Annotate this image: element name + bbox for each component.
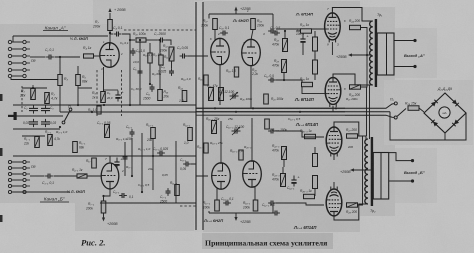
resistor R23-1 470к xyxy=(281,174,286,187)
diode Д2 xyxy=(452,99,459,106)
wire rail drop right xyxy=(272,14,274,30)
wire rail drop left xyxy=(208,14,210,19)
wire grid res B top xyxy=(314,147,316,154)
wire top rail A input xyxy=(13,35,108,37)
wire C1-1 to grid xyxy=(54,175,102,177)
wire +250B to tap xyxy=(354,169,372,171)
potentiometer R3 volume xyxy=(58,75,62,86)
underline Канал А xyxy=(43,30,68,32)
wire Л3-1 plate to Тр2 xyxy=(334,204,367,220)
junction bus 2 xyxy=(235,111,237,113)
resistor grid A bottom xyxy=(313,60,318,74)
resistor R2-1 4,7к xyxy=(48,135,53,146)
capacitor C5-1 10,0 xyxy=(114,157,123,169)
wire vert x176 B xyxy=(175,141,177,203)
junction tone 1 xyxy=(32,87,34,89)
wire input B row 1 xyxy=(12,161,23,163)
wire vert x152 B xyxy=(152,139,154,190)
resistor R26-1 1к xyxy=(304,194,315,198)
wire input B row 3 xyxy=(12,173,23,175)
wire R23-1 top xyxy=(282,167,284,174)
resistor R18 1,0 xyxy=(234,67,238,77)
resistor R10-1 20к xyxy=(151,128,156,139)
wire inter-transformer link 1 xyxy=(366,87,368,136)
wire vert x142 B xyxy=(141,133,143,192)
resistor R18-1 1,0 xyxy=(239,150,243,160)
wire Л1b cathode up xyxy=(109,156,111,164)
capacitor C13 0,5 xyxy=(272,31,280,36)
left-edge smudge 3 xyxy=(0,215,3,222)
junction bus 1 xyxy=(214,107,216,109)
wire input B row 2 xyxy=(12,167,23,169)
resistor R19-1 100к xyxy=(253,200,258,211)
pentode Л4-1 6П14П xyxy=(326,125,342,157)
terminal output B- xyxy=(411,179,414,182)
capacitor C7-1 2500 xyxy=(166,188,171,196)
junction A m6 xyxy=(109,32,111,34)
junction A m3 xyxy=(159,39,161,41)
wire vert x160 xyxy=(159,40,161,90)
wire tone top xyxy=(22,87,47,89)
resistor R15-1 1к xyxy=(204,143,208,153)
resistor R6-1 1к xyxy=(92,158,97,168)
capacitor C5a 10,0 xyxy=(138,68,143,76)
caption highlight box xyxy=(202,233,333,249)
diode Д4 xyxy=(452,119,459,126)
wire Л4-1 plate to Тр2 xyxy=(334,122,366,140)
resistor R2 4,7к xyxy=(45,93,50,104)
wire R7 to +200 xyxy=(109,13,111,20)
wire speaker line 2 xyxy=(345,111,390,113)
wire Л4 plate to Тр1 xyxy=(333,74,372,85)
resistor R4 1к xyxy=(84,54,94,58)
wire dashed shield right xyxy=(121,70,123,116)
wire bus B y203 xyxy=(100,202,196,204)
wire cathode drop xyxy=(103,67,105,92)
wire grid res B bot xyxy=(314,189,316,197)
junction bar input A xyxy=(14,112,17,120)
wire Л4-1 cathode xyxy=(333,154,335,160)
resistor R21-1 100к xyxy=(265,119,270,129)
triode Л2-1b xyxy=(243,161,262,187)
input B terminal L2 xyxy=(8,166,11,169)
resistor R1-1 22к xyxy=(35,137,40,148)
wire input A row 3 xyxy=(12,55,23,57)
wire input B row 6 xyxy=(12,191,23,193)
scan patch middle main block xyxy=(203,1,360,232)
capacitor C1 0,1 xyxy=(46,55,54,60)
wire to grid top tube xyxy=(276,28,325,30)
resistor R13 20к xyxy=(158,90,163,101)
input A terminal L1 xyxy=(8,40,11,43)
wire input B row 4 xyxy=(12,179,23,181)
resistor R15 1к xyxy=(204,75,208,85)
wire splitter vert 2 xyxy=(250,65,252,108)
wire input A row 2 xyxy=(12,48,23,50)
junction A m4 xyxy=(129,104,131,106)
wire signal B to splitter xyxy=(191,164,208,176)
input A terminal L5 xyxy=(8,68,11,71)
capacitor C12-1b 0,5 xyxy=(272,211,280,216)
junction A m5 xyxy=(149,83,151,85)
resistor R24-1 200 xyxy=(347,134,358,138)
wire C1 to volume xyxy=(55,56,81,58)
resistor R26 200 xyxy=(350,85,361,89)
resistor R22 470к xyxy=(283,39,288,52)
wire plate up xyxy=(109,31,111,46)
wire vert x150 xyxy=(149,43,151,84)
wire R5 join xyxy=(78,87,92,89)
triode Л2b xyxy=(242,39,261,65)
wire +250 to tap xyxy=(352,54,372,56)
wire R5 top xyxy=(77,66,79,74)
resistor R25 1к top xyxy=(301,29,312,33)
arrow +225В (A) xyxy=(234,7,237,11)
wire input A row 5 stub xyxy=(27,69,31,71)
capacitor C14 100,0 xyxy=(300,34,309,46)
wire screen bus A xyxy=(361,28,368,88)
wire R5 bottom xyxy=(77,86,79,105)
capacitor C9-1 0,05 xyxy=(183,162,191,167)
transformer Тр2 core xyxy=(371,137,373,206)
junction A m1 xyxy=(129,39,131,41)
wire +225 rail B xyxy=(209,212,273,214)
arrow +200В (B) xyxy=(102,218,105,222)
input B terminal R3 xyxy=(23,172,26,175)
wire Л3-1 cathode xyxy=(333,182,335,189)
arrow +225В (B) xyxy=(234,217,237,221)
transformer Тр2 secondary box xyxy=(373,153,388,200)
wire plate to C4 xyxy=(110,33,113,35)
junction A m2 xyxy=(139,39,141,41)
input B terminal L6 xyxy=(8,190,11,193)
arrow +250В (A) xyxy=(348,53,352,56)
scan patch left lower extension xyxy=(75,203,203,231)
capacitor C3a 0,03 xyxy=(41,119,50,127)
pentode Л4 6П14П xyxy=(325,75,341,107)
trimmer C11-1 12-100 xyxy=(232,127,241,135)
wire input B row 1 stub xyxy=(27,161,31,163)
wire vert x130 xyxy=(129,40,131,105)
triode Л1b (1/2 6Н2П) xyxy=(101,163,119,189)
switch П2 contact 2 xyxy=(394,116,397,119)
capacitor C10 0,1 xyxy=(220,31,228,36)
wire screen bus B xyxy=(358,136,363,205)
resistor grid B top xyxy=(313,154,318,167)
input A terminal L6 xyxy=(8,74,11,77)
wire Тр2 secondary bottom tap xyxy=(389,180,411,182)
wire rail B drop right xyxy=(272,203,274,213)
resistor R14 1,0 xyxy=(182,91,187,102)
wire ground bus A2 xyxy=(60,111,196,113)
wire C9 to splitter grid xyxy=(188,55,209,57)
wire input A to grid xyxy=(30,56,46,58)
wire +225B arrow stem xyxy=(235,213,237,218)
resistor R9 1,0 xyxy=(148,53,152,63)
junction gnd 1 xyxy=(77,104,79,106)
switch П2 lever xyxy=(397,109,406,117)
junction bus 3 xyxy=(252,107,254,109)
trimmer C11 12-100 xyxy=(230,92,239,100)
resistor grid A top xyxy=(313,37,318,51)
input B terminal L1 xyxy=(8,160,11,163)
terminal output A+ xyxy=(413,39,416,42)
wire R1 top lead xyxy=(32,85,34,88)
resistor R16 47к xyxy=(209,88,214,101)
capacitor C2a 0,03 xyxy=(29,119,38,127)
junction B m4 xyxy=(102,195,104,197)
wire bridge return xyxy=(390,112,466,140)
wire splitter B vert 1 xyxy=(220,121,222,164)
transformer Тр1 core xyxy=(375,19,377,87)
resistor R1 22к xyxy=(31,89,36,100)
wire Тр2 secondary top tap xyxy=(389,153,411,161)
wire dashed feedback B xyxy=(180,205,196,207)
wire plate B down xyxy=(104,189,111,201)
wire input A row 1 stub xyxy=(27,41,31,43)
wire C14 top xyxy=(302,31,304,35)
wire Тр1 secondary top tap xyxy=(394,40,414,42)
wire R22 top xyxy=(284,31,286,39)
wire grid res A bot up xyxy=(314,54,316,60)
capacitor C8 0,025 xyxy=(169,68,174,76)
capacitor C6 10,0 xyxy=(131,48,136,56)
wire input A row 5 xyxy=(12,69,23,71)
wire R10 to C7 xyxy=(146,39,158,41)
resistor R7-1 200к xyxy=(101,201,106,213)
resistor R29 15к xyxy=(408,106,419,111)
transformer Тр1 secondary inner lead xyxy=(386,33,388,75)
wire to grid B top xyxy=(276,131,324,137)
resistor R17 100к xyxy=(213,19,218,30)
wire grid res A top up xyxy=(314,31,316,37)
capacitor C12 coupling bottom xyxy=(268,78,276,83)
scan patch top-left strip xyxy=(93,0,203,26)
wire Л3 cathode down xyxy=(331,42,333,55)
input A terminal R4 xyxy=(23,61,26,64)
wire R19-1 to tube xyxy=(254,186,256,200)
resistor R10 100к xyxy=(136,38,146,42)
wire input B row 2 stub xyxy=(27,167,31,169)
input B terminal R5 xyxy=(23,184,26,187)
wire input B row 3 stub xyxy=(27,173,31,175)
wire +225 rail A xyxy=(209,13,273,15)
switch П1 xyxy=(62,108,72,124)
junction B m1 xyxy=(131,175,133,177)
input B terminal R4 xyxy=(23,178,26,181)
wire ground bus B xyxy=(13,191,70,193)
junction bus 4 xyxy=(299,111,301,113)
scan patch left main block xyxy=(0,24,203,203)
wire bus B y156ext xyxy=(60,155,196,157)
meter мА xyxy=(439,107,450,118)
resistor R23 470к xyxy=(282,60,287,73)
resistor R14-1 1,0 xyxy=(188,128,193,141)
wire B+ rail x196 xyxy=(195,2,197,230)
resistor R12-1 100к xyxy=(105,125,110,138)
arrow +250В (B) xyxy=(350,168,354,171)
wire rail B drop left xyxy=(208,211,210,213)
capacitor C7 2500 xyxy=(158,38,166,43)
switch П2 contact 1 xyxy=(394,102,397,105)
junction B m3 xyxy=(152,155,154,157)
wire R12 bottom xyxy=(171,61,173,68)
pentode Л3 6П14П xyxy=(325,10,341,42)
wire splitter vert 1 xyxy=(219,64,221,105)
capacitor C13 coupling top xyxy=(268,29,276,34)
wire input A row 4 xyxy=(12,62,23,64)
input B terminal R6 xyxy=(23,190,26,193)
input B terminal R2 xyxy=(23,166,26,169)
wire bus y112 xyxy=(196,111,345,113)
pentode Л3-1 6П14П xyxy=(326,187,342,219)
capacitor C9 0,05 xyxy=(180,54,188,59)
input B terminal L4 xyxy=(8,178,11,181)
transformer Тр2 secondary inner lead xyxy=(380,153,382,200)
triode Л2-1a xyxy=(212,163,231,189)
wire bridge bottom stub xyxy=(444,133,446,140)
wire R25 top link xyxy=(296,30,301,32)
resistor R24 200 xyxy=(350,25,361,29)
capacitor C6b 1500 xyxy=(150,84,155,92)
wire grid res A top down xyxy=(314,51,316,58)
wire input B row 6 stub xyxy=(27,191,31,193)
resistor R7 200к xyxy=(108,20,113,31)
junction tone 3 xyxy=(59,126,61,128)
input A terminal R2 xyxy=(23,47,26,50)
input A terminal R5 xyxy=(23,68,26,71)
scan patch output A terminals xyxy=(395,28,437,78)
wire input A row 4 stub xyxy=(27,62,31,64)
resistor R3-1 68к xyxy=(73,142,78,153)
capacitor C2 0,03 xyxy=(29,105,38,113)
wire tone B bottom xyxy=(13,155,60,157)
triode Л1a (1/2 6Н2П) xyxy=(100,43,119,68)
wire input B to C1-1 xyxy=(30,175,45,177)
junction R22 grid xyxy=(284,30,286,32)
bridge diamond wiring xyxy=(424,93,466,133)
triode Л2a xyxy=(211,38,230,64)
junction B m2 xyxy=(141,191,143,193)
input A terminal R3 xyxy=(23,54,26,57)
junction bus 5 xyxy=(335,107,337,109)
capacitor C4-1 0,1 xyxy=(119,193,127,198)
input B terminal R1 xyxy=(23,160,26,163)
wire vert x132 B xyxy=(131,138,133,176)
wire Л3 plate to Тр1 xyxy=(332,8,371,22)
wire vert x140 xyxy=(139,40,141,105)
resistor R26-1 200 xyxy=(347,203,358,207)
capacitor C6-1 100 xyxy=(130,129,135,137)
arrow +200В (A) xyxy=(108,8,111,12)
wire speaker line 3 xyxy=(345,115,394,117)
input A terminal R1 xyxy=(23,40,26,43)
wire input A row 3 stub xyxy=(27,55,31,57)
wire input block bottom xyxy=(11,78,60,80)
wire Л4 cathode down xyxy=(332,106,334,112)
wire speaker line 1 xyxy=(345,104,394,109)
wire +225 arrow stem xyxy=(235,9,237,14)
wire input A drop xyxy=(12,36,14,42)
wire grid res A bot down xyxy=(314,74,316,80)
wire to grid B bottom xyxy=(276,203,324,205)
wire R29 to bridge xyxy=(419,108,424,112)
input B terminal L3 xyxy=(8,172,11,175)
capacitor C5 20,0 xyxy=(115,90,124,102)
resistor R5 68к xyxy=(76,75,81,86)
wire C7 out xyxy=(166,40,172,45)
resistor R19 100к xyxy=(251,19,256,30)
left-edge smudge 2 xyxy=(0,148,3,156)
scan patch transformer strip xyxy=(360,7,395,216)
wire R22-1 bottom xyxy=(283,160,285,168)
junction R23 grid xyxy=(283,79,285,81)
wire vert x125 B xyxy=(124,142,126,176)
wire B+ rail x203 xyxy=(202,2,204,230)
capacitor C1-1 0,1 xyxy=(45,174,53,179)
resistor R8 1,0 xyxy=(97,106,101,114)
capacitor C13-1 coupling top xyxy=(268,129,276,134)
wire Тр1 secondary bottom tap xyxy=(394,66,414,68)
diode Д1 xyxy=(431,100,438,107)
resistor R25 1к bottom xyxy=(302,82,313,86)
resistor R17-1 100к xyxy=(215,200,220,211)
wire dashed shield left xyxy=(96,70,98,116)
terminal output A- xyxy=(413,65,416,68)
wire C14 bottom xyxy=(302,46,304,56)
capacitor C3 0,03 xyxy=(41,105,50,113)
junction screen tap xyxy=(366,54,368,56)
junction gnd 3 xyxy=(91,111,93,113)
input B terminal L5 xyxy=(8,184,11,187)
wire input A row 6 xyxy=(12,75,23,77)
wire tone B xyxy=(22,135,45,137)
wire dashed feedback A xyxy=(124,29,196,31)
resistor R16-1 47к xyxy=(212,121,217,134)
resistor R12 100к xyxy=(169,47,174,61)
wire inter-transformer link 2 xyxy=(369,85,371,139)
wire input A row 2 stub xyxy=(27,48,31,50)
wire input B row 4 stub xyxy=(27,179,31,181)
underline Канал Б xyxy=(40,201,69,203)
wire ground bus A xyxy=(13,104,196,106)
wire volume to switch xyxy=(59,86,61,112)
transformer Тр2 primary winding xyxy=(365,139,368,204)
light gutter between columns xyxy=(194,1,203,232)
wire tone mid xyxy=(16,115,63,117)
wire dashed gang link xyxy=(21,86,23,112)
capacitor C10-1 0,1 xyxy=(223,201,231,206)
wire input B row 5 xyxy=(12,185,23,187)
input A terminal L4 xyxy=(8,61,11,64)
capacitor C12-1 coupling bottom xyxy=(268,201,276,206)
diode Д3 xyxy=(431,120,438,127)
resistor R4-1 1к xyxy=(77,174,87,178)
wire R17-1 to tube xyxy=(216,188,218,200)
transformer Тр1 primary winding xyxy=(370,21,373,85)
wire R7-1 to +200 xyxy=(103,213,105,218)
input A terminal R6 xyxy=(23,74,26,77)
resistor grid B bottom xyxy=(313,176,318,189)
transformer Тр1 secondary box xyxy=(377,33,394,75)
wire splitter B vert 2 xyxy=(251,118,253,162)
input A terminal L3 xyxy=(8,54,11,57)
resistor R6 1к xyxy=(101,92,106,103)
junction gnd 2 xyxy=(103,104,105,106)
wire R19 to tube xyxy=(251,30,253,41)
wire C4 out xyxy=(122,34,135,40)
wire cathode bus xyxy=(103,89,118,91)
